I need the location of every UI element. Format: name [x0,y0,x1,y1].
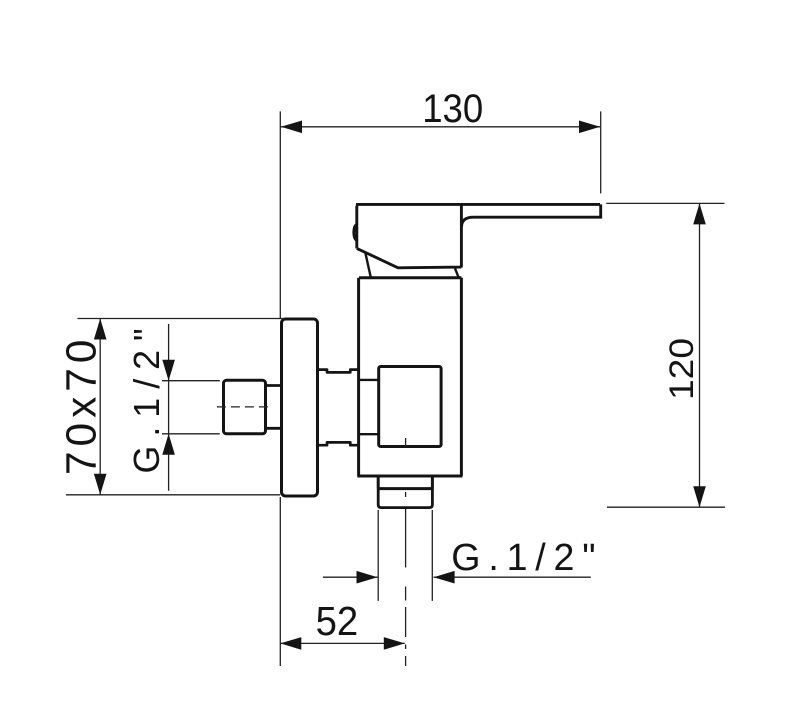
dim 70x70 bottom arrow [94,474,107,495]
dim 52 line [280,642,405,644]
dim 52 extension left [279,497,281,666]
dim G.1/2 left line [168,324,170,491]
dim G.1/2 bottom left arrow [357,571,378,584]
dim 130 line [281,126,600,128]
diverter square window [379,367,441,447]
dim 130 extension left [279,111,281,319]
faucet body [357,278,462,476]
dim 120 top arrow [693,203,706,224]
inlet step piece [266,386,281,429]
wall plate [282,319,318,496]
svg-text:G.1/2": G.1/2" [451,536,603,578]
dim 52 right arrow [384,637,405,650]
dim 70x70 extension top [78,318,285,320]
dim 120 extension top [606,202,724,204]
outlet thread [378,489,432,508]
dim G.1/2 left extension top [162,380,220,382]
neck between plate and body (bottom stepped line) [318,442,359,445]
svg-text:130: 130 [422,87,483,131]
outlet centerline vertical [405,438,407,666]
dim G.1/2 bottom line left [323,576,378,578]
dim 130 right arrow [579,121,600,134]
wall inlet fitting block [224,380,266,434]
dim G.1/2 bottom right arrow [434,571,455,584]
neck between plate and body (top stepped line) [318,370,359,373]
dim G.1/2 bottom extension left [377,510,379,601]
dim 52 left arrow [280,637,301,650]
dim G.1/2 bottom extension right [431,510,433,601]
dim G.1/2 bottom line right [434,576,591,578]
dome left edge [365,253,371,278]
svg-text:70x70: 70x70 [59,335,106,475]
lever [462,204,601,227]
dim 70x70 extension bottom [66,494,280,496]
dome right edge [455,268,459,277]
connector stub top [359,379,379,381]
dim G.1/2 left upper arrow [162,360,175,381]
dim 130 extension right [600,111,602,193]
dim 120 bottom arrow [693,486,706,507]
inlet centerline [217,406,272,408]
handle left bump [354,225,357,241]
dim 130 left arrow [281,121,302,134]
svg-text:G.1/2": G.1/2" [127,319,167,473]
dim 120 extension bottom [607,506,725,508]
dim 70x70 top arrow [94,319,107,340]
handle cap block [356,204,600,267]
svg-text:52: 52 [316,598,359,644]
dim G.1/2 left lower arrow [162,434,175,455]
dim 70x70 line [99,319,101,495]
dim G.1/2 left extension bottom [162,433,220,435]
connector stub bottom [359,433,379,435]
outlet collar [377,476,434,489]
dim 120 line [699,203,701,507]
svg-text:120: 120 [663,338,701,400]
